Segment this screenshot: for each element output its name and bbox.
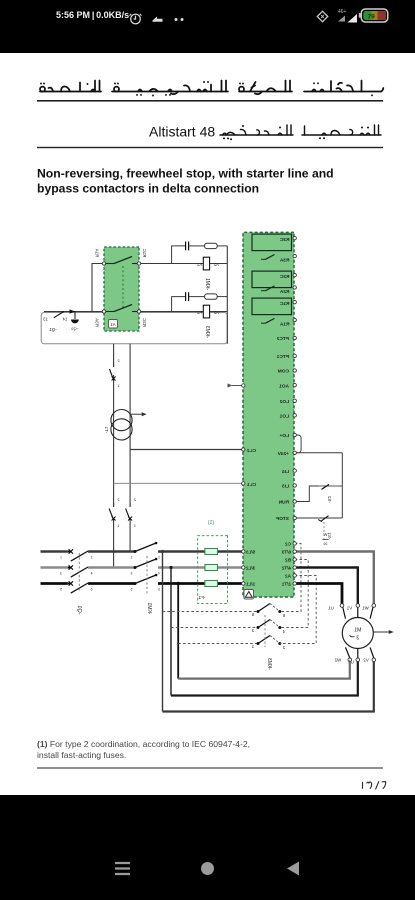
delta connection icon bbox=[244, 590, 254, 600]
contact R3 bbox=[132, 311, 139, 313]
remote relay contacts box bbox=[104, 247, 139, 331]
svg-text:-F1: -F1 bbox=[198, 595, 205, 600]
svg-text:-S2: -S2 bbox=[327, 496, 332, 503]
svg-text:5: 5 bbox=[130, 588, 132, 592]
dashed feed KM3 pole3 bbox=[178, 643, 258, 645]
svg-text:A1: A1 bbox=[110, 322, 116, 327]
svg-text:6/T3: 6/T3 bbox=[281, 550, 291, 555]
svg-text:R1A: R1A bbox=[279, 321, 289, 327]
svg-text:1/L1: 1/L1 bbox=[246, 582, 256, 587]
svg-text:4/T2: 4/T2 bbox=[281, 566, 291, 571]
svg-text:W2: W2 bbox=[334, 658, 341, 663]
wire 6/T3 to W1 bbox=[295, 552, 374, 605]
blade arrow bbox=[70, 309, 76, 313]
line contactor KM1 bbox=[134, 550, 137, 553]
svg-text:6: 6 bbox=[158, 588, 160, 592]
wire +24 rail bbox=[341, 453, 343, 518]
dashed riser C2 bbox=[280, 544, 301, 612]
svg-text:RUN: RUN bbox=[278, 500, 289, 506]
svg-text:W1: W1 bbox=[362, 606, 369, 611]
svg-text:6: 6 bbox=[282, 613, 285, 618]
wire 4/T2 to V1 bbox=[295, 568, 358, 605]
loop V2 bbox=[163, 662, 374, 712]
home circle bbox=[201, 862, 214, 875]
svg-text:4: 4 bbox=[90, 572, 92, 576]
svg-text:1: 1 bbox=[117, 524, 119, 528]
svg-text:-S1: -S1 bbox=[327, 532, 332, 539]
dashed feed KM3 pole1 bbox=[163, 611, 259, 613]
vpn diamond icon bbox=[317, 11, 327, 21]
svg-text:5/L3: 5/L3 bbox=[246, 550, 256, 555]
resistor R2 bbox=[205, 294, 218, 299]
tap vertical phase3 bbox=[177, 584, 179, 679]
breaker aux contact Q1 13-14 bbox=[54, 312, 64, 318]
wire RUN bbox=[295, 486, 318, 502]
svg-text:1: 1 bbox=[60, 556, 62, 560]
svg-text:-KM1: -KM1 bbox=[146, 602, 152, 614]
svg-text:CL2: CL2 bbox=[247, 448, 256, 454]
contact R1 bbox=[132, 263, 139, 265]
svg-text:14: 14 bbox=[62, 317, 67, 322]
svg-text:2: 2 bbox=[117, 498, 119, 502]
svg-text:3: 3 bbox=[251, 628, 254, 633]
transformer T1 bbox=[111, 410, 132, 431]
battery bbox=[359, 13, 361, 18]
svg-text:2: 2 bbox=[134, 498, 136, 502]
dashed riser A2 bbox=[280, 576, 316, 644]
wire snubber KM1 bbox=[172, 246, 186, 264]
svg-text:3: 3 bbox=[60, 572, 62, 576]
loop U2 bbox=[171, 662, 358, 696]
svg-text:V1: V1 bbox=[346, 606, 352, 611]
svg-text:3/L2: 3/L2 bbox=[246, 566, 256, 571]
svg-text:2: 2 bbox=[282, 645, 285, 650]
svg-text:3: 3 bbox=[356, 636, 359, 642]
capacitor C1 bbox=[185, 242, 187, 251]
svg-text:STOP: STOP bbox=[275, 516, 289, 522]
wire snubber KM3 bbox=[172, 297, 186, 312]
svg-text:C2: C2 bbox=[285, 542, 291, 547]
svg-text:COM: COM bbox=[278, 369, 289, 375]
isolator contacts bbox=[112, 506, 116, 518]
contactor coil KM1 bbox=[203, 257, 209, 270]
status bar bbox=[0, 0, 415, 53]
tap vertical phase2 bbox=[170, 568, 172, 696]
svg-text:LO1: LO1 bbox=[279, 414, 289, 420]
svg-text:R1C: R1C bbox=[142, 249, 147, 258]
wire CL2 bbox=[130, 449, 243, 451]
control fuse-switch bbox=[112, 366, 116, 375]
svg-text:-KM3: -KM3 bbox=[266, 658, 272, 670]
svg-text:AO1: AO1 bbox=[279, 383, 289, 389]
svg-text:R1A: R1A bbox=[95, 249, 100, 258]
svg-text:LI4: LI4 bbox=[282, 469, 289, 475]
bus L1 bbox=[41, 550, 68, 552]
analog output arrow bbox=[232, 385, 243, 387]
svg-text:-KM3: -KM3 bbox=[204, 326, 210, 339]
svg-text:4: 4 bbox=[158, 572, 160, 576]
notif icon bbox=[153, 17, 163, 22]
tap vertical phase1 bbox=[162, 552, 164, 712]
LO+ / +24V bracket bbox=[295, 435, 301, 453]
svg-text:A2: A2 bbox=[285, 574, 291, 579]
svg-text:1: 1 bbox=[251, 644, 254, 649]
motor M1 bbox=[342, 618, 373, 649]
svg-text:R3A: R3A bbox=[95, 318, 100, 327]
svg-text:A1: A1 bbox=[196, 310, 202, 315]
alarm clock icon bbox=[130, 14, 142, 24]
control circuit enclosure bbox=[41, 313, 227, 344]
contactor coil KM3 bbox=[203, 305, 209, 318]
supply socket bbox=[74, 312, 76, 320]
svg-text:2: 2 bbox=[117, 359, 119, 363]
relay R3 bbox=[252, 234, 292, 251]
headings bbox=[0, 53, 415, 223]
svg-text:R2A: R2A bbox=[279, 289, 289, 295]
dashed feed KM3 pole2 bbox=[171, 627, 258, 629]
svg-text:3: 3 bbox=[130, 572, 132, 576]
svg-text:2/T1: 2/T1 bbox=[281, 582, 291, 587]
wire CL1 bbox=[114, 482, 244, 484]
relay R2 bbox=[252, 271, 292, 288]
svg-text:LO+: LO+ bbox=[279, 433, 289, 439]
bus L3 bbox=[41, 582, 68, 585]
svg-text:A2: A2 bbox=[213, 262, 219, 267]
svg-text:-Q1: -Q1 bbox=[49, 327, 57, 332]
bypass contactor KM3 bbox=[257, 610, 260, 613]
relay R1 bbox=[252, 298, 292, 315]
svg-text:R3C: R3C bbox=[142, 318, 147, 327]
resistor R1 bbox=[205, 243, 218, 248]
svg-text:R1C: R1C bbox=[279, 301, 289, 307]
svg-text:5: 5 bbox=[251, 612, 254, 617]
wire KM1 coil row bbox=[139, 263, 227, 265]
page number bbox=[363, 781, 386, 789]
more dots bbox=[175, 18, 178, 21]
svg-text:26: 26 bbox=[324, 542, 328, 546]
back triangle bbox=[287, 862, 299, 876]
menu icon bbox=[115, 863, 130, 874]
svg-text:−Q3: −Q3 bbox=[71, 327, 78, 331]
svg-text:2: 2 bbox=[158, 556, 160, 560]
svg-text:A2: A2 bbox=[213, 310, 219, 315]
wire coil return bbox=[226, 246, 228, 344]
wire to transformer primary bbox=[113, 344, 115, 568]
svg-text:-Q1: -Q1 bbox=[76, 605, 82, 614]
svg-text:A1: A1 bbox=[196, 262, 202, 267]
wire +24V bbox=[295, 452, 343, 454]
svg-text:R2C: R2C bbox=[279, 274, 289, 280]
svg-text:R3C: R3C bbox=[279, 237, 289, 243]
pushbutton S1 (STOP) bbox=[295, 517, 343, 519]
svg-text:4: 4 bbox=[282, 629, 285, 634]
A1 tag bbox=[109, 320, 118, 329]
svg-text:B2: B2 bbox=[285, 558, 291, 563]
svg-text:1: 1 bbox=[134, 524, 136, 528]
svg-text:6: 6 bbox=[90, 588, 92, 592]
loop W2 bbox=[178, 662, 350, 679]
svg-text:(1): (1) bbox=[208, 520, 215, 526]
bus L2 bbox=[41, 566, 68, 568]
svg-text:M1: M1 bbox=[354, 628, 361, 634]
svg-text:-KM1: -KM1 bbox=[204, 278, 210, 291]
wire control top bbox=[44, 311, 227, 313]
Altistart 48 block bbox=[243, 232, 294, 597]
wire 2/T1 to U1 bbox=[295, 584, 342, 605]
svg-text:-T1: -T1 bbox=[104, 426, 109, 433]
fuse box (1) bbox=[198, 536, 228, 604]
svg-text:V2: V2 bbox=[363, 658, 369, 663]
circuit breaker Q1 bbox=[69, 549, 73, 553]
svg-text:PTC2: PTC2 bbox=[276, 336, 289, 342]
capacitor C2 bbox=[185, 292, 187, 301]
svg-text:1: 1 bbox=[130, 556, 132, 560]
svg-text:+24V: +24V bbox=[277, 451, 289, 457]
svg-text:5: 5 bbox=[60, 588, 62, 592]
footnote bbox=[37, 739, 377, 760]
wire to R1A bbox=[92, 264, 104, 312]
svg-text:LO2: LO2 bbox=[279, 399, 289, 405]
bottom nav bar bbox=[0, 795, 415, 900]
wire control supply L bbox=[129, 344, 131, 552]
svg-text:1: 1 bbox=[117, 384, 119, 388]
svg-text:13: 13 bbox=[43, 317, 48, 322]
svg-text:LI3: LI3 bbox=[282, 484, 289, 490]
svg-text:U1: U1 bbox=[328, 606, 334, 611]
pushbutton S2 (RUN) bbox=[318, 485, 342, 487]
svg-text:CL1: CL1 bbox=[247, 482, 256, 488]
svg-text:R3A: R3A bbox=[279, 257, 289, 263]
dashed riser B2 bbox=[280, 560, 308, 628]
svg-text:2: 2 bbox=[90, 556, 92, 560]
signal bars bbox=[338, 16, 345, 22]
svg-text:PTC1: PTC1 bbox=[276, 354, 289, 360]
